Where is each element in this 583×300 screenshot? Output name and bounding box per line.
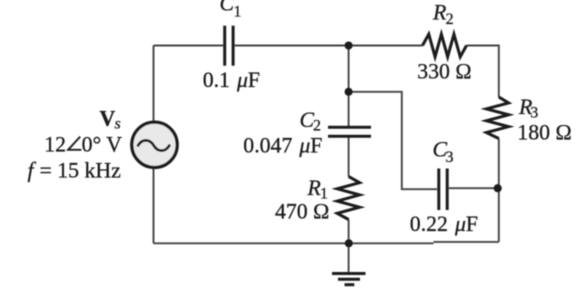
svg-text:180 Ω: 180 Ω <box>517 121 571 145</box>
svg-text:C: C <box>220 0 235 16</box>
svg-text:1: 1 <box>234 4 242 21</box>
svg-text:0.1μF: 0.1μF <box>203 68 260 92</box>
svg-text:R: R <box>432 1 446 25</box>
svg-text:f: f <box>28 159 37 183</box>
svg-text:12: 12 <box>44 133 66 157</box>
svg-text:3: 3 <box>530 105 538 122</box>
svg-text:= 15 kHz: = 15 kHz <box>40 159 122 183</box>
svg-text:2: 2 <box>446 11 454 28</box>
svg-text:2: 2 <box>313 118 321 135</box>
svg-text:V: V <box>100 107 116 131</box>
svg-text:0.22μF: 0.22μF <box>410 212 478 236</box>
svg-text:0° V: 0° V <box>82 133 123 157</box>
svg-text:0.047μF: 0.047μF <box>243 133 322 157</box>
svg-text:R: R <box>307 176 321 200</box>
svg-text:s: s <box>115 116 121 133</box>
svg-text:470 Ω: 470 Ω <box>275 199 329 223</box>
svg-text:330 Ω: 330 Ω <box>417 60 471 84</box>
svg-text:3: 3 <box>446 149 454 166</box>
